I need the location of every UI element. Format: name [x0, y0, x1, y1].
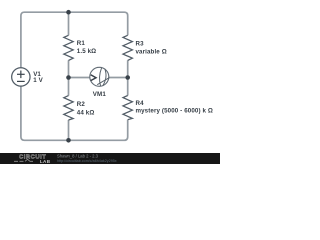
voltmeter VM1 — [90, 67, 109, 86]
junction node top (middle column / top rail) — [66, 10, 71, 15]
VM1 needle — [97, 78, 109, 85]
svg-text:R2: R2 — [77, 101, 86, 108]
svg-text:http://circuitlab.com/c/a6h4ak: http://circuitlab.com/c/a6h4ak2y295x — [57, 159, 117, 163]
junction node bottom (middle column / bottom rail) — [66, 138, 71, 143]
junction node VM left — [66, 75, 71, 80]
wire outer loop top — [21, 12, 128, 67]
wire VM left lead — [69, 77, 90, 79]
VM1 arrow — [91, 75, 96, 81]
resistor R3 — [123, 35, 132, 60]
wire middle column upper (top rail to R1) — [68, 12, 70, 35]
resistor R2 — [64, 96, 73, 120]
svg-text:44 kΩ: 44 kΩ — [77, 109, 95, 116]
resistor R1 — [64, 35, 73, 60]
svg-text:1.5 kΩ: 1.5 kΩ — [77, 48, 96, 55]
wire R3 to VM right node — [127, 60, 129, 77]
svg-text:Shawn_8 / Lab 2 - 2.3: Shawn_8 / Lab 2 - 2.3 — [57, 153, 99, 158]
svg-text:LAB: LAB — [40, 159, 51, 164]
wire VM node to R2 — [68, 78, 70, 96]
watermark bar — [0, 153, 220, 164]
svg-text:R3: R3 — [136, 41, 145, 48]
svg-text:R1: R1 — [77, 40, 86, 47]
svg-text:1 V: 1 V — [33, 77, 43, 84]
svg-text:R4: R4 — [136, 100, 145, 107]
voltage source V1 — [12, 68, 30, 86]
CircuitLab logo waveform — [14, 159, 33, 161]
svg-text:VM1: VM1 — [93, 91, 107, 98]
VM1 dial arcs — [100, 68, 107, 86]
resistor R4 — [123, 96, 132, 120]
V1 plus sign — [17, 71, 25, 79]
wire R1 to VM node — [68, 60, 70, 77]
wire VM right node to R4 — [127, 78, 129, 96]
svg-text:variable Ω: variable Ω — [136, 49, 167, 56]
svg-text:mystery (5000 - 6000) k Ω: mystery (5000 - 6000) k Ω — [136, 108, 213, 115]
V1 minus sign — [17, 80, 25, 82]
junction node VM right — [125, 75, 130, 80]
wire VM right lead — [109, 77, 128, 79]
wire outer loop bottom — [21, 86, 128, 140]
wire R2 to bottom rail — [68, 120, 70, 140]
